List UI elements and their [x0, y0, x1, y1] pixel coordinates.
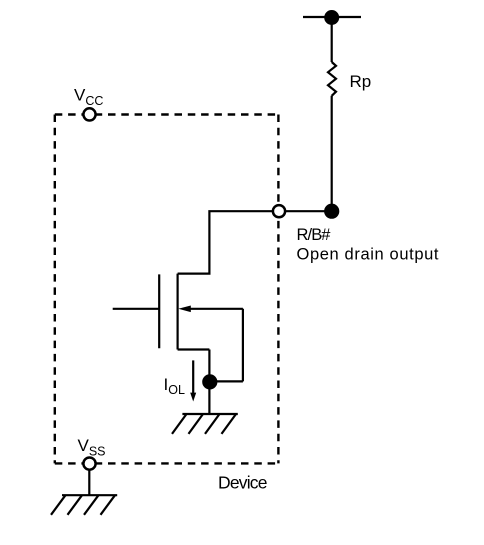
- wire: node R/B# to output pin: [285, 210, 332, 212]
- wire: output pin to transistor drain: [178, 211, 273, 273]
- transistor Q1 (open-drain NMOS): [113, 274, 243, 382]
- ground (VSS): [51, 495, 117, 515]
- node R/B# junction dot: [324, 204, 339, 219]
- ground (transistor source): [172, 414, 238, 434]
- node: supply junction dot: [324, 10, 339, 25]
- svg-text:Rp: Rp: [350, 72, 372, 91]
- resistor Rp: [328, 62, 336, 96]
- wire: resistor Rp to node R/B#: [331, 96, 333, 211]
- wire: source junction to ground: [208, 382, 210, 414]
- svg-text:Open drain output: Open drain output: [297, 246, 440, 264]
- svg-text:Device: Device: [218, 473, 267, 493]
- svg-text:R/B#: R/B#: [297, 226, 332, 244]
- node: source/body junction dot: [202, 374, 217, 389]
- pin: open drain output pin (open circle): [273, 205, 285, 217]
- wire: VSS pin to ground: [88, 469, 90, 495]
- current arrow I_OL: [190, 360, 196, 401]
- pin VCC (open circle on box edge): [83, 108, 95, 120]
- pin VSS (open circle on box edge): [83, 458, 95, 470]
- device box (dashed outline): [55, 115, 279, 464]
- power rail (top supply bar): [303, 16, 361, 18]
- wire: supply to resistor Rp: [331, 18, 333, 63]
